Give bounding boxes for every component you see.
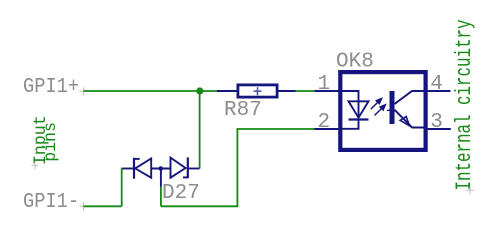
svg-text:2: 2 bbox=[318, 111, 331, 134]
wire junction down to D27 bbox=[199, 91, 201, 169]
junction dot D27 middle bbox=[159, 166, 164, 171]
light arrow 1 bbox=[371, 99, 382, 110]
svg-text:R87: R87 bbox=[224, 99, 262, 122]
wire GPI1- up to D27 bbox=[122, 169, 124, 207]
text origin cross Input bbox=[32, 162, 39, 169]
diode D27 left triangle bbox=[135, 159, 151, 178]
LED anode wire inside OK8 bbox=[342, 91, 359, 101]
pin 1 stub bbox=[315, 90, 341, 92]
resistor R87 plus mark bbox=[254, 87, 262, 95]
optocoupler OK8 box bbox=[340, 72, 425, 150]
svg-text:pins: pins bbox=[41, 122, 61, 162]
wire between diodes bbox=[151, 168, 170, 170]
diode D27 left cathode hook bbox=[134, 158, 140, 160]
svg-text:3: 3 bbox=[430, 111, 443, 134]
LED center line bbox=[358, 101, 360, 117]
LED triangle bbox=[349, 101, 369, 117]
light arrow 2 bbox=[375, 105, 386, 116]
diode D27 left lead bbox=[123, 168, 134, 170]
phototransistor collector bbox=[395, 91, 425, 104]
svg-text:D27: D27 bbox=[162, 182, 200, 205]
resistor R87 right lead bbox=[279, 90, 296, 92]
LED cathode wire inside OK8 bbox=[342, 120, 359, 129]
wire GPI1- horizontal bbox=[84, 205, 122, 207]
wire endpoint cross GPI1- bbox=[80, 202, 88, 210]
svg-text:GPI1-: GPI1- bbox=[23, 190, 79, 215]
resistor R87 body bbox=[238, 85, 277, 97]
wire GPI1+ horizontal bbox=[84, 90, 219, 92]
svg-text:1: 1 bbox=[318, 73, 331, 96]
wire resistor to pin1 bbox=[296, 90, 315, 92]
diode D27 right cathode hook bbox=[183, 176, 188, 178]
svg-text:4: 4 bbox=[430, 73, 443, 96]
svg-text:OK8: OK8 bbox=[336, 50, 374, 73]
pin 3 stub bbox=[426, 128, 451, 130]
svg-text:Internal circuitry: Internal circuitry bbox=[452, 20, 477, 191]
diode D27 right triangle bbox=[171, 158, 186, 178]
wire bottom run to pin 2 bbox=[161, 129, 315, 206]
svg-text:GPI1+: GPI1+ bbox=[23, 75, 79, 100]
phototransistor bar bbox=[390, 91, 395, 124]
diode D27 right lead bbox=[189, 168, 200, 170]
resistor R87 left lead bbox=[217, 90, 237, 92]
phototransistor base tick bbox=[387, 109, 396, 111]
diode D27 left cathode bar bbox=[133, 158, 135, 179]
wire D27 middle stub down (green) bbox=[160, 187, 162, 206]
wire D27 middle stub down (blue) bbox=[160, 169, 162, 187]
text origin cross Interal bbox=[466, 186, 474, 194]
LED cathode bar bbox=[349, 118, 369, 120]
node junction dot bbox=[196, 87, 203, 94]
pin 2 stub bbox=[315, 128, 341, 130]
pin 4 stub bbox=[426, 90, 451, 92]
phototransistor emitter arrowhead bbox=[400, 117, 409, 126]
diode D27 right cathode bar bbox=[187, 157, 189, 178]
wire endpoint cross GPI1+ bbox=[80, 87, 88, 95]
phototransistor emitter bbox=[395, 110, 425, 128]
